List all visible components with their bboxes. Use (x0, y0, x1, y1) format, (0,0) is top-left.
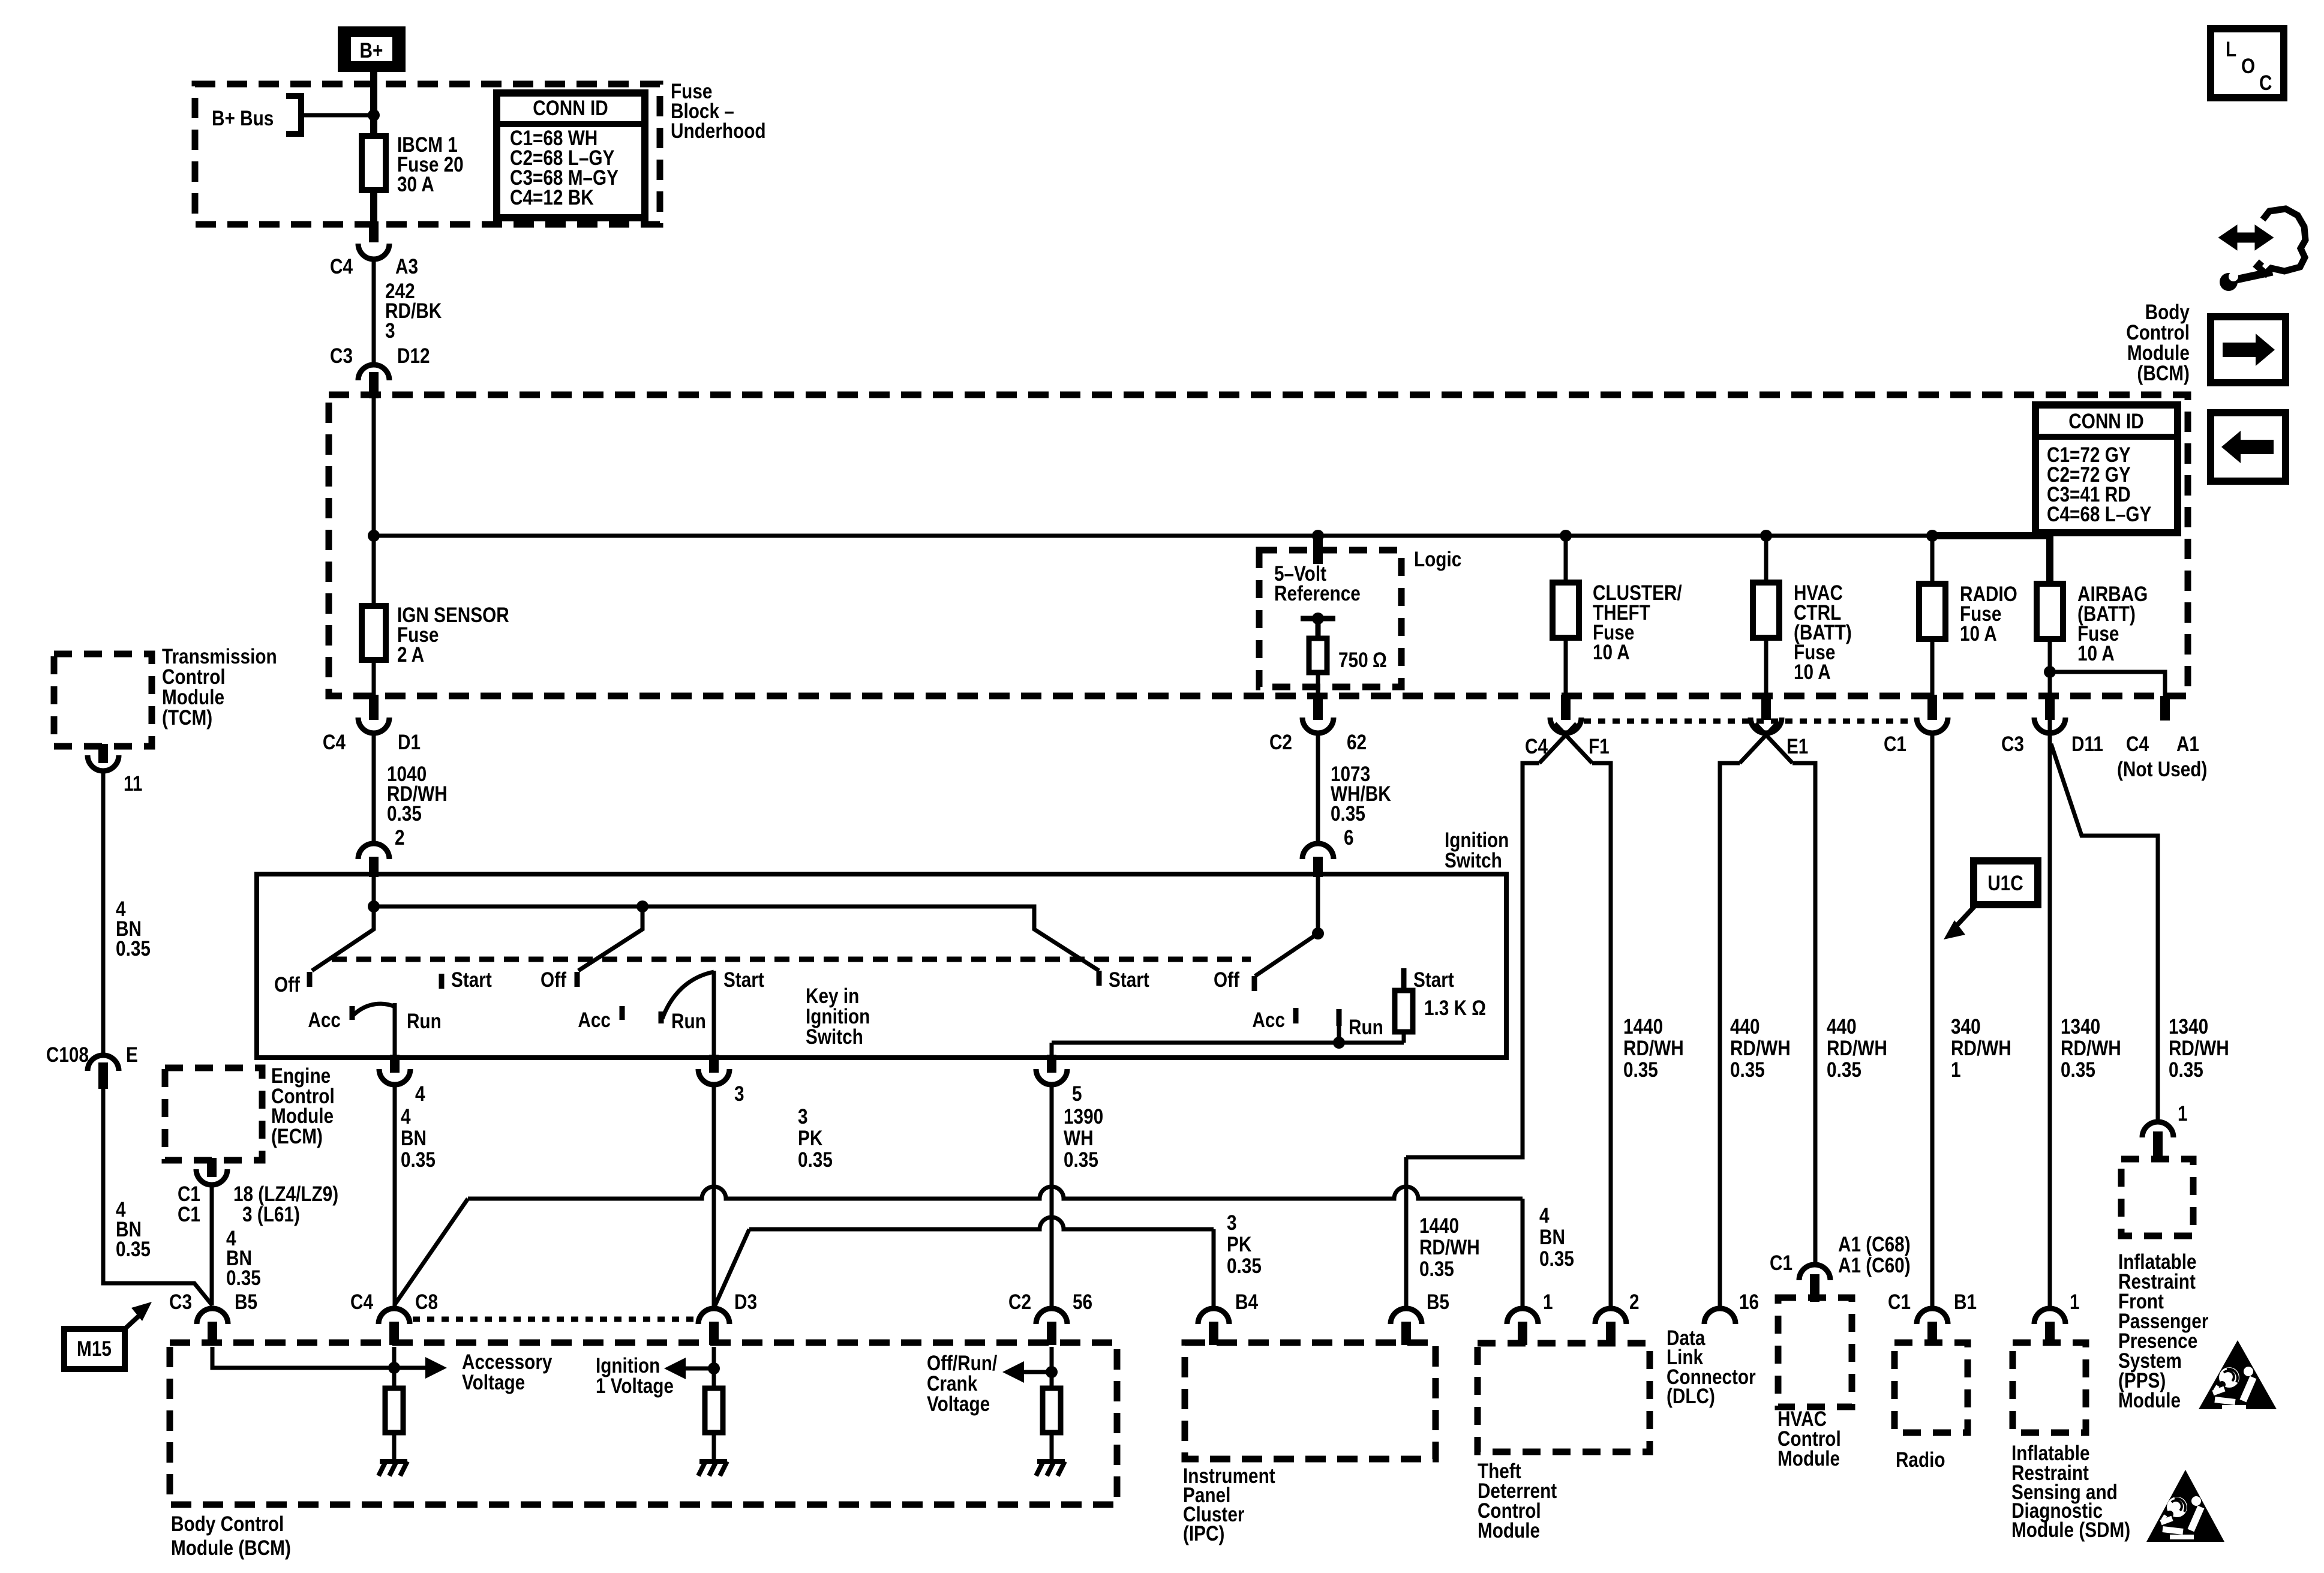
wire 1040 RD/WH circuit (372, 733, 376, 843)
wire F1 left leg 1440 RD/WH to B5 (1406, 763, 1539, 1157)
node: airbag fuse output junction (2044, 666, 2056, 678)
wire B+ bus to junction (304, 113, 374, 118)
svg-text:1: 1 (1951, 1058, 1961, 1082)
svg-text:Start: Start (1109, 968, 1149, 992)
svg-text:RD/WH: RD/WH (1951, 1037, 2011, 1060)
svg-text:(DLC): (DLC) (1667, 1385, 1715, 1408)
svg-text:Acc: Acc (578, 1008, 611, 1032)
svg-text:Off/Run/: Off/Run/ (927, 1352, 997, 1375)
svg-text:Reference: Reference (1274, 582, 1361, 605)
bank2 Start contact and output (712, 971, 716, 1058)
svg-text:C1: C1 (1770, 1251, 1792, 1275)
run contact wire to rail (1337, 1026, 1341, 1043)
svg-text:Run: Run (1349, 1016, 1383, 1039)
svg-text:Control: Control (2126, 321, 2190, 344)
wire 4 BN 0.35 to BCM (103, 1089, 212, 1305)
switch bank 2 wiper (578, 906, 642, 971)
Inflatable Restraint Front Passenger Presence System (PPS) Module dashed box (2121, 1159, 2193, 1236)
svg-text:C4: C4 (1525, 735, 1548, 758)
CONN ID table (BCM) (2035, 405, 2178, 533)
svg-text:Start: Start (1413, 968, 1454, 992)
svg-text:Start: Start (723, 968, 764, 992)
svg-text:5: 5 (1072, 1082, 1082, 1106)
svg-text:C108: C108 (46, 1043, 89, 1067)
dotted interface line F1-C1 (1584, 719, 1914, 724)
svg-text:C4: C4 (330, 255, 353, 278)
svg-text:Key in: Key in (806, 984, 859, 1008)
svg-text:2 A: 2 A (397, 643, 424, 667)
svg-text:C4=12 BK: C4=12 BK (510, 186, 594, 209)
svg-text:1440: 1440 (1623, 1015, 1663, 1038)
svg-text:RD/WH: RD/WH (1419, 1236, 1480, 1259)
svg-text:440: 440 (1827, 1015, 1857, 1038)
svg-text:Off: Off (274, 973, 300, 996)
svg-text:10 A: 10 A (2077, 642, 2115, 665)
svg-text:CONN ID: CONN ID (533, 97, 608, 120)
Radio dashed box (1894, 1343, 1968, 1433)
svg-text:B5: B5 (1427, 1290, 1449, 1314)
svg-text:Module (SDM): Module (SDM) (2011, 1518, 2130, 1542)
svg-text:4: 4 (401, 1105, 411, 1128)
warning triangle (PPS) (2199, 1340, 2277, 1409)
svg-text:56: 56 (1073, 1290, 1092, 1314)
svg-text:C2: C2 (1269, 731, 1292, 754)
fuse CLUSTER/THEFT 10A (1564, 536, 1568, 583)
svg-text:B1: B1 (1954, 1290, 1977, 1314)
svg-text:0.35: 0.35 (1539, 1247, 1574, 1271)
svg-text:Module: Module (1777, 1447, 1840, 1470)
svg-text:10 A: 10 A (1960, 622, 1997, 646)
fuse RADIO 10A (1930, 536, 1935, 584)
svg-text:1340: 1340 (2061, 1015, 2100, 1038)
wire 340 RD/WH to radio (1930, 733, 1935, 1308)
fuse IGN SENSOR 2A (372, 536, 376, 606)
connector pin 5 (1047, 1055, 1056, 1073)
svg-text:C4=68 L–GY: C4=68 L–GY (2047, 503, 2152, 526)
svg-text:Off: Off (1214, 968, 1239, 992)
Transmission Control Module (TCM) dashed box (54, 654, 152, 746)
U1C callout box with arrow (1974, 861, 2038, 905)
Instrument Panel Cluster (IPC) dashed box (1185, 1343, 1436, 1459)
connector C1 (radio feed) (1927, 695, 1937, 720)
connector C3/D11 (2045, 695, 2055, 720)
wire 1340 RD/WH to SDM (2048, 733, 2052, 1308)
wire pin 6 to key-in pivot (1316, 874, 1320, 933)
svg-text:RD/WH: RD/WH (1730, 1037, 1791, 1060)
key-in Off contact (1252, 976, 1257, 991)
bank2 Run contact with bridge to Start (659, 1011, 664, 1023)
svg-text:1 Voltage: 1 Voltage (596, 1374, 674, 1398)
key-in bank Start contact (1097, 971, 1102, 986)
wire 242 RD/BK (372, 259, 376, 365)
svg-text:4: 4 (415, 1082, 425, 1106)
warning triangle (SDM) (2146, 1470, 2224, 1542)
svg-text:BN: BN (1539, 1226, 1565, 1249)
svg-text:RD/WH: RD/WH (1623, 1037, 1684, 1060)
svg-text:30 A: 30 A (397, 173, 434, 196)
Body Control Module (BCM) dashed box (329, 395, 2188, 696)
svg-text:0.35: 0.35 (1331, 802, 1365, 825)
fuse block - underhood dashed box (195, 84, 660, 224)
svg-text:Control: Control (162, 665, 226, 689)
wire branch 1340 RD/WH to PPS (2051, 744, 2158, 1122)
svg-text:BN: BN (401, 1127, 427, 1150)
svg-text:3: 3 (1227, 1211, 1237, 1235)
Body Control Module (BCM) bottom dashed box (170, 1343, 1117, 1505)
svg-text:10 A: 10 A (1593, 641, 1630, 664)
wire D12 pin to internal bus (372, 395, 376, 536)
svg-text:Module: Module (1478, 1519, 1540, 1542)
connector C2/56 (BCM) (1036, 1308, 1067, 1324)
connector B5 (IPC) (1391, 1308, 1422, 1324)
svg-text:C1: C1 (178, 1203, 200, 1226)
svg-text:D11: D11 (2071, 733, 2103, 756)
svg-text:Crank: Crank (927, 1372, 978, 1395)
svg-text:0.35: 0.35 (1827, 1058, 1861, 1082)
wire 3 PK 0.35 (712, 1085, 716, 1308)
svg-text:Run: Run (407, 1010, 442, 1033)
resistor to ground (accessory) (385, 1388, 403, 1433)
wire 4 BN 0.35 (393, 1085, 397, 1308)
svg-text:Ignition: Ignition (806, 1005, 870, 1028)
svg-text:0.35: 0.35 (798, 1148, 833, 1172)
connector C2/62 (1313, 695, 1323, 720)
connector 16 (DLC) (1704, 1308, 1736, 1324)
svg-text:Run: Run (671, 1010, 706, 1033)
svg-text:1.3 K Ω: 1.3 K Ω (1424, 996, 1486, 1020)
connector C4/D1 (369, 695, 379, 720)
svg-text:Module: Module (271, 1104, 334, 1128)
icon car with wrench (2257, 209, 2305, 274)
connector 1 (SDM) (2034, 1308, 2065, 1324)
svg-text:0.35: 0.35 (2169, 1058, 2203, 1082)
svg-text:0.35: 0.35 (401, 1148, 436, 1172)
thick bus segment to airbag fuse (1932, 536, 2050, 584)
arrow box right (2211, 317, 2286, 383)
svg-text:C4: C4 (2126, 733, 2149, 756)
svg-text:0.35: 0.35 (1227, 1254, 1262, 1278)
svg-text:RD/WH: RD/WH (2061, 1037, 2121, 1060)
svg-text:Module (BCM): Module (BCM) (171, 1536, 291, 1560)
svg-text:Module: Module (2118, 1389, 2181, 1412)
node: bank 1 pivot (368, 900, 380, 912)
svg-text:340: 340 (1951, 1015, 1981, 1038)
M15 splice box with arrow (64, 1329, 125, 1369)
svg-text:B+: B+ (360, 39, 383, 62)
svg-text:C1: C1 (178, 1182, 200, 1206)
connector B4 (IPC) (1198, 1308, 1229, 1324)
svg-text:62: 62 (1347, 731, 1367, 754)
wire 4 BN 0.35 from ECM (210, 1185, 214, 1305)
CONN ID table (fuse block) (497, 93, 645, 218)
svg-text:Module: Module (2127, 341, 2190, 365)
dotted interface line C8-D3 (413, 1317, 696, 1322)
svg-text:2: 2 (1629, 1290, 1640, 1314)
svg-text:3 (L61): 3 (L61) (242, 1203, 300, 1226)
svg-text:L: L (2226, 38, 2236, 61)
svg-text:B4: B4 (1235, 1290, 1258, 1314)
svg-text:Switch: Switch (806, 1025, 863, 1049)
bank2 Off contact (575, 972, 580, 987)
svg-text:0.35: 0.35 (1730, 1058, 1765, 1082)
switch bank 1 wiper (312, 906, 374, 971)
svg-text:C2: C2 (1008, 1290, 1031, 1314)
svg-text:Module: Module (162, 686, 224, 709)
resistor to ground (off/run/crank) (1043, 1388, 1061, 1433)
svg-text:18 (LZ4/LZ9): 18 (LZ4/LZ9) (233, 1182, 338, 1206)
connector C4/A3 (369, 221, 379, 242)
wire to A1 (not used) (2050, 672, 2165, 696)
wire B+ to fuse (370, 72, 377, 136)
svg-text:3: 3 (385, 319, 395, 343)
svg-text:0.35: 0.35 (1419, 1257, 1454, 1281)
svg-text:B5: B5 (235, 1290, 257, 1314)
5-Volt Reference dashed box (1313, 539, 1323, 564)
node: bus junction at HVAC CTRL fuse (1760, 530, 1772, 542)
svg-text:C1: C1 (1884, 733, 1906, 756)
svg-text:E1: E1 (1786, 735, 1808, 758)
svg-text:Start: Start (451, 968, 492, 992)
svg-text:C4: C4 (323, 731, 346, 754)
ignition 1 voltage node (712, 1347, 716, 1388)
connector pin 6 into ignition switch (1302, 843, 1334, 859)
Inflatable Restraint Sensing and Diagnostic Module (SDM) dashed box (2013, 1343, 2086, 1433)
svg-text:11: 11 (124, 772, 142, 795)
svg-text:(Not Used): (Not Used) (2117, 758, 2207, 781)
HVAC Control Module dashed box (1778, 1298, 1852, 1407)
svg-text:C: C (2259, 71, 2272, 95)
svg-text:(BCM): (BCM) (2137, 362, 2190, 385)
internal B+ bus wire (374, 534, 1932, 538)
connector C3/B5 (BCM) (197, 1308, 228, 1324)
svg-text:750: 750 (1338, 649, 1368, 672)
svg-text:1440: 1440 (1419, 1214, 1459, 1238)
svg-text:(ECM): (ECM) (271, 1125, 323, 1148)
bank2 Acc contact (620, 1006, 625, 1020)
resistor 1.3 K ohm with Start contact (1401, 968, 1407, 990)
fuse IBCM 1 Fuse 20 30A (362, 136, 386, 190)
svg-text:6: 6 (1344, 826, 1354, 849)
svg-text:A1 (C68): A1 (C68) (1838, 1233, 1911, 1256)
svg-text:C3: C3 (2001, 733, 2024, 756)
battery feed symbol B+ (338, 26, 406, 72)
svg-text:0.35: 0.35 (2061, 1058, 2095, 1082)
svg-text:PK: PK (1227, 1233, 1252, 1256)
connector C1 of ECM (207, 1158, 217, 1177)
svg-text:Voltage: Voltage (462, 1371, 525, 1394)
svg-text:Body: Body (2145, 301, 2190, 324)
svg-text:440: 440 (1730, 1015, 1760, 1038)
wire pin 2 to switch bus (372, 874, 376, 906)
svg-text:RD/WH: RD/WH (2169, 1037, 2229, 1060)
connector C1/B1 (radio) (1917, 1308, 1948, 1324)
svg-text:1340: 1340 (2169, 1015, 2208, 1038)
svg-text:Acc: Acc (308, 1008, 341, 1032)
ignition rail 3 PK 0.35 branch (715, 1229, 749, 1305)
svg-text:0.35: 0.35 (116, 937, 151, 960)
svg-text:4: 4 (1539, 1204, 1550, 1227)
svg-text:Ignition: Ignition (1445, 828, 1509, 852)
connector C108/E (88, 1055, 119, 1071)
fuse AIRBAG (BATT) 10A (2037, 584, 2063, 639)
connector 1 (theft) (1507, 1308, 1538, 1324)
svg-text:1: 1 (2178, 1102, 2188, 1125)
node: bus junction at RADIO fuse (1926, 530, 1938, 542)
svg-text:1: 1 (2070, 1290, 2080, 1314)
wire E1 right leg 440 RD/WH to HVAC C1 (1792, 763, 1815, 1265)
resistor to ground (ignition) (705, 1388, 723, 1433)
svg-text:1: 1 (1543, 1290, 1553, 1314)
node: B+ junction (368, 109, 380, 121)
svg-text:Voltage: Voltage (927, 1392, 990, 1416)
connector C1 (HVAC) (1799, 1265, 1830, 1280)
svg-text:RD/WH: RD/WH (1827, 1037, 1887, 1060)
svg-text:(IPC): (IPC) (1183, 1522, 1224, 1545)
svg-text:WH: WH (1064, 1127, 1094, 1150)
connector 2 (theft) (1595, 1308, 1626, 1324)
svg-text:16: 16 (1739, 1290, 1759, 1314)
bottom rail to pin 5 (1052, 1041, 1404, 1045)
svg-text:U1C: U1C (1987, 872, 2023, 895)
switch detent dashed line (332, 957, 1251, 962)
connector pin 11 (98, 744, 108, 763)
svg-text:0.35: 0.35 (226, 1266, 261, 1290)
connector 1 (PPS) (2142, 1122, 2173, 1137)
svg-text:E: E (126, 1043, 138, 1067)
svg-text:Acc: Acc (1252, 1008, 1285, 1032)
connector pin 3 (709, 1055, 719, 1073)
connector pin 4 (390, 1055, 400, 1073)
ignition switch box (257, 874, 1506, 1058)
svg-text:CONN ID: CONN ID (2068, 410, 2144, 433)
switch internal bus wire (374, 906, 1099, 971)
node: key-in pivot (1312, 927, 1324, 939)
svg-text:D3: D3 (734, 1290, 757, 1314)
svg-text:A1: A1 (2176, 733, 2199, 756)
svg-text:D12: D12 (397, 344, 430, 368)
key-in Run contact (1337, 1009, 1342, 1026)
svg-text:3: 3 (734, 1082, 744, 1106)
wire 1390 WH 0.35 (1050, 1085, 1054, 1308)
svg-text:C3: C3 (330, 344, 353, 368)
svg-text:Body Control: Body Control (171, 1512, 284, 1536)
Engine Control Module (ECM) dashed box (165, 1068, 262, 1160)
wire E1 left leg 440 RD/WH to DLC 16 (1720, 763, 1740, 1308)
fuse HVAC CTRL (BATT) 10A (1764, 536, 1768, 583)
resistor 750 ohm (1301, 616, 1335, 622)
svg-text:O: O (2241, 55, 2255, 78)
double connector E1 (1761, 695, 1771, 720)
wire 4 BN 0.35 from TCM (101, 771, 106, 1055)
svg-text:M15: M15 (77, 1337, 112, 1361)
node: bus junction at CLUSTER/THEFT fuse (1560, 530, 1572, 542)
svg-text:Transmission: Transmission (162, 645, 277, 668)
Theft Deterrent Control Module dashed box (1478, 1343, 1650, 1452)
svg-text:0.35: 0.35 (1623, 1058, 1658, 1082)
key-in Acc contact (1293, 1008, 1299, 1023)
svg-text:F1: F1 (1589, 735, 1610, 758)
svg-text:A3: A3 (395, 255, 418, 278)
svg-text:Engine: Engine (271, 1064, 331, 1088)
svg-text:C3: C3 (169, 1290, 192, 1314)
svg-text:3: 3 (798, 1105, 808, 1128)
bank1 Start contact (439, 974, 445, 989)
accessory voltage node (212, 1347, 394, 1368)
svg-text:2: 2 (395, 826, 405, 849)
svg-text:(TCM): (TCM) (162, 706, 212, 730)
off/run/crank voltage node (1050, 1347, 1054, 1388)
double connector C4 x F1 (1561, 695, 1571, 720)
svg-text:Radio: Radio (1896, 1448, 1945, 1472)
svg-text:A1 (C60): A1 (C60) (1838, 1254, 1911, 1277)
connector D3 (BCM) (698, 1308, 729, 1324)
svg-text:C4: C4 (350, 1290, 373, 1314)
svg-text:Switch: Switch (1445, 849, 1502, 872)
svg-text:Underhood: Underhood (671, 119, 766, 143)
svg-text:0.35: 0.35 (1064, 1148, 1098, 1172)
LOC reference box (2211, 29, 2284, 98)
node: bus junction at IGN SENSOR feed (368, 530, 380, 542)
svg-text:Logic: Logic (1414, 548, 1461, 571)
svg-text:C1: C1 (1888, 1290, 1911, 1314)
connector C4/C8 (BCM) (379, 1308, 410, 1324)
node: bus junction at 5-volt reference feed (1312, 530, 1324, 542)
accessory rail 4 BN 0.35 branch (468, 1187, 1523, 1199)
svg-text:PK: PK (798, 1127, 823, 1150)
svg-text:0.35: 0.35 (387, 802, 422, 825)
connector pin 2 into ignition switch (358, 843, 389, 859)
svg-text:10 A: 10 A (1794, 661, 1831, 684)
bank1 Off contact (307, 972, 313, 987)
svg-text:D1: D1 (398, 731, 421, 754)
svg-text:Off: Off (541, 968, 566, 992)
svg-text:0.35: 0.35 (116, 1238, 151, 1261)
key-in switch wiper blade (1255, 933, 1318, 976)
svg-text:Ignition: Ignition (596, 1354, 660, 1377)
svg-text:Accessory: Accessory (462, 1350, 552, 1374)
wire fuse to block edge (370, 190, 377, 224)
bank1 Acc contact (350, 1006, 355, 1020)
arrow box left (2211, 413, 2286, 481)
svg-text:1390: 1390 (1064, 1105, 1103, 1128)
bank1 Acc-Run bridge and Run output (353, 1004, 395, 1015)
svg-text:Ω: Ω (1373, 649, 1387, 672)
B+ Bus bracket (286, 96, 301, 134)
svg-text:B+ Bus: B+ Bus (212, 107, 274, 130)
wire 1073 WH/BK circuit (1316, 733, 1320, 843)
wire F1 right leg 1440 RD/WH to theft 2 (1592, 763, 1611, 1308)
svg-text:C8: C8 (415, 1290, 438, 1314)
node: bank 2 pivot (636, 900, 648, 912)
